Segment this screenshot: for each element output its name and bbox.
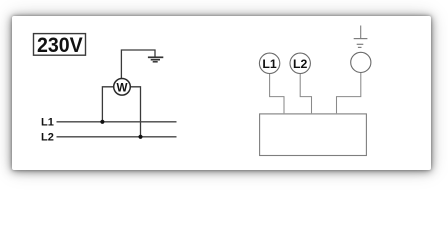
junction on L1 xyxy=(100,120,104,124)
junction on L2 xyxy=(138,135,142,139)
terminal PE (earth) xyxy=(351,52,371,72)
svg-text:230V: 230V xyxy=(37,33,83,57)
wire from terminal L2 to load box xyxy=(300,74,311,114)
wire L2 rail xyxy=(57,136,177,138)
terminal L2 xyxy=(290,53,310,73)
wire from terminal L1 to load box xyxy=(270,74,284,114)
svg-text:L2: L2 xyxy=(293,57,308,71)
svg-text:L1: L1 xyxy=(262,57,277,71)
svg-text:L1: L1 xyxy=(41,116,54,128)
wire from earth terminal to load box xyxy=(337,73,361,114)
page xyxy=(12,16,431,170)
svg-text:W: W xyxy=(117,80,128,94)
voltage source label 230V xyxy=(34,33,86,57)
ground (left earth symbol) xyxy=(148,57,163,62)
terminal L1 xyxy=(259,53,279,73)
ground (right earth symbol) xyxy=(354,26,368,48)
wire from wattmeter left terminal to L1 rail xyxy=(102,87,114,122)
load box xyxy=(260,114,367,156)
wattmeter W1 xyxy=(114,79,131,96)
svg-text:L2: L2 xyxy=(41,131,54,143)
wire L1 rail xyxy=(57,121,177,123)
wire from wattmeter right terminal to L2 rail xyxy=(130,87,141,137)
wire from wattmeter top to ground xyxy=(121,50,155,79)
